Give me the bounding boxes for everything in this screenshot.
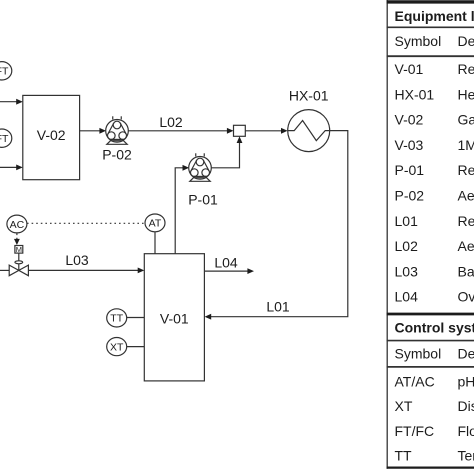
svg-text:L04: L04 [214,255,238,271]
svg-text:Reactor vessel: Reactor vessel [458,61,474,77]
instrument TT [107,309,127,327]
wire TT to V-01 [127,317,145,319]
wire feed 1 into V-02 [0,99,23,105]
wire V-02 to P-02 [80,128,106,134]
svg-text:P-01: P-01 [395,162,425,178]
instrument FT (second, cut at left edge) [0,129,12,147]
instrument FT (top, cut at left edge) [0,62,12,80]
svg-text:Recirculation line: Recirculation line [458,213,474,229]
svg-text:P-02: P-02 [395,188,425,204]
instrument AC [7,215,27,233]
svg-text:P-02: P-02 [102,146,132,162]
vessel V-01 [144,254,204,381]
svg-text:Overflow line: Overflow line [458,289,474,305]
vessel V-02 [23,95,80,179]
valve stem with diaphragm [15,253,23,270]
svg-text:V-02: V-02 [37,127,66,143]
rule below equipment header [387,26,474,28]
motor actuator M [15,245,23,254]
wire L04 out of V-01 [204,255,254,275]
svg-text:XT: XT [395,398,413,414]
heat exchanger HX-01 [288,88,330,152]
svg-text:FT/FC: FT/FC [395,423,435,439]
wire L02: P-02 to junction [128,114,234,134]
svg-text:AT: AT [149,218,162,230]
signal line AC to valve motor (dotted, arrow down) [14,234,20,246]
svg-text:AT/AC: AT/AC [395,373,435,389]
table left border [386,0,388,469]
table: equipment list [387,0,474,469]
svg-text:Temperature: Temperature [458,447,474,463]
svg-text:Control system: Control system [395,320,474,336]
svg-text:Dissolved oxygen: Dissolved oxygen [458,398,474,414]
svg-text:L03: L03 [65,252,89,268]
svg-text:Equipment list: Equipment list [395,8,474,24]
svg-text:Recirculation pump: Recirculation pump [458,162,474,178]
svg-text:AC: AC [10,219,25,231]
svg-text:M: M [16,245,22,254]
svg-text:V-03: V-03 [395,137,424,153]
svg-text:P-01: P-01 [188,191,218,207]
rule below column header 2 [387,366,474,368]
svg-text:FT: FT [0,133,9,145]
svg-text:Aeration line: Aeration line [458,238,474,254]
svg-text:V-01: V-01 [160,310,189,326]
wire AT to V-01 top [154,232,156,254]
svg-text:V-01: V-01 [395,61,424,77]
svg-text:L02: L02 [159,114,183,130]
table top border [387,0,474,3]
svg-text:Gas mixing vessel: Gas mixing vessel [458,112,474,128]
svg-text:Description: Description [458,33,474,49]
svg-text:L03: L03 [395,263,419,279]
wire L01: HX-01 to V-01 [205,131,348,320]
wire L03 into valve (from left edge) [0,269,9,271]
rule below control header [387,340,474,342]
svg-text:Aeration pump: Aeration pump [458,188,474,204]
signal line AC to AT (dotted) [27,222,145,224]
svg-text:1M NaOH vessel: 1M NaOH vessel [458,137,474,153]
wire L03: valve to V-01 [28,252,144,273]
svg-text:Heat exchanger: Heat exchanger [458,86,474,102]
wire V-01 top to P-01 [175,165,189,254]
svg-text:Description: Description [458,346,474,362]
pump P-01 [188,153,218,207]
control valve [9,265,28,276]
svg-text:TT: TT [395,447,413,463]
svg-text:TT: TT [110,313,123,325]
svg-text:Symbol: Symbol [395,33,442,49]
wire XT to V-01 [127,346,145,348]
table bottom border [387,467,474,469]
thick rule below equipment table [387,313,474,316]
svg-text:Base dosing line: Base dosing line [458,263,474,279]
svg-text:pH transmitter: pH transmitter [458,373,474,389]
node mixing junction (square) [234,125,246,136]
instrument AT [145,214,165,232]
wire P-01 to junction (up) [211,136,242,167]
svg-text:Flow transmitter: Flow transmitter [458,423,474,439]
svg-text:HX-01: HX-01 [289,88,329,104]
wire junction to HX-01 [245,128,287,134]
svg-text:HX-01: HX-01 [395,86,435,102]
svg-text:FT: FT [0,66,9,78]
svg-text:L01: L01 [395,213,419,229]
pump P-02 [102,116,132,162]
svg-text:L01: L01 [266,299,290,315]
instrument XT [107,338,127,356]
rule below column header [387,55,474,57]
svg-text:XT: XT [110,341,124,353]
svg-text:L02: L02 [395,238,419,254]
svg-text:L04: L04 [395,289,419,305]
wire feed 2 into V-02 [0,165,23,171]
svg-text:Symbol: Symbol [395,346,442,362]
svg-text:V-02: V-02 [395,112,424,128]
